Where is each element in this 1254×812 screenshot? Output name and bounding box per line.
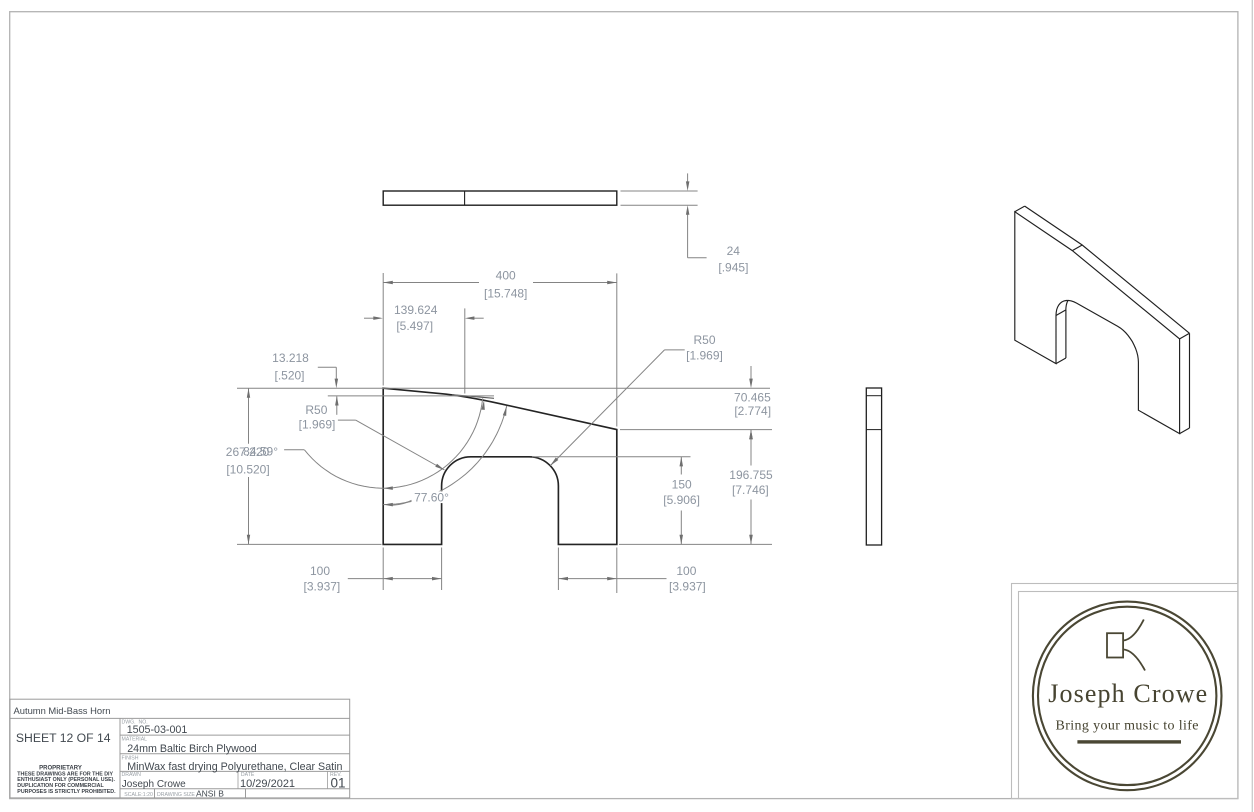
isometric view of horn panel	[1015, 206, 1190, 434]
iso back top edges	[1025, 206, 1190, 333]
svg-text:SHEET 12 OF 14: SHEET 12 OF 14	[16, 731, 111, 745]
iso arch back fillet (visible part)	[1066, 301, 1068, 310]
leader 84.59 text landing	[284, 449, 304, 451]
extension lines	[237, 191, 772, 593]
iso bottom-right corner edge	[1180, 428, 1190, 434]
svg-text:ANSI B: ANSI B	[196, 788, 224, 798]
svg-text:[5.497]: [5.497]	[396, 319, 433, 333]
svg-text:13.218: 13.218	[272, 351, 309, 365]
logo horn flare curves	[1123, 620, 1144, 641]
svg-text:100: 100	[310, 564, 330, 578]
svg-text:[7.746]: [7.746]	[732, 483, 769, 497]
svg-text:[10.520]: [10.520]	[226, 462, 269, 476]
svg-text:[5.906]: [5.906]	[663, 493, 700, 507]
side view (right profile)	[866, 388, 881, 545]
svg-text:Autumn Mid-Bass Horn: Autumn Mid-Bass Horn	[14, 705, 111, 716]
iso top-right corner edge	[1180, 333, 1190, 339]
svg-text:MATERIAL: MATERIAL	[122, 736, 148, 742]
iso back right edge	[1189, 333, 1191, 428]
svg-text:R50: R50	[305, 403, 327, 417]
window right edge line	[1251, 0, 1253, 812]
svg-text:PURPOSES IS STRICTLY PROHIBITE: PURPOSES IS STRICTLY PROHIBITED.	[17, 789, 116, 795]
svg-text:24: 24	[727, 244, 741, 258]
svg-text:150: 150	[672, 477, 692, 491]
title block borders	[10, 699, 350, 798]
svg-text:70.465: 70.465	[734, 391, 771, 405]
iso bevel junction tick	[1072, 245, 1082, 251]
svg-text:[3.937]: [3.937]	[304, 579, 341, 593]
iso front face outline	[1015, 212, 1180, 434]
logo frame boxes	[1012, 584, 1239, 799]
svg-text:MinWax fast drying Polyurethan: MinWax fast drying Polyurethane, Clear S…	[127, 761, 342, 773]
logo underline bar	[1077, 740, 1181, 743]
svg-text:[2.774]: [2.774]	[734, 404, 771, 418]
front view: horn panel profile with arch cutout	[383, 388, 617, 544]
svg-text:Joseph Crowe: Joseph Crowe	[1048, 679, 1207, 708]
svg-text:77.60°: 77.60°	[414, 490, 449, 504]
svg-text:R50: R50	[693, 333, 715, 347]
svg-text:[1.969]: [1.969]	[299, 417, 336, 431]
svg-text:Joseph Crowe: Joseph Crowe	[122, 779, 186, 790]
logo horn driver rectangle	[1107, 633, 1123, 657]
svg-text:01: 01	[331, 776, 346, 791]
svg-text:84.59°: 84.59°	[243, 445, 278, 459]
svg-text:24mm Baltic Birch Plywood: 24mm Baltic Birch Plywood	[127, 743, 257, 755]
svg-text:100: 100	[676, 564, 696, 578]
svg-text:[1.969]: [1.969]	[686, 349, 723, 363]
leader 77.60 text	[392, 500, 413, 506]
iso arch wall tangent edge	[1056, 310, 1066, 316]
radius leader R50 right	[249, 173, 752, 578]
svg-text:139.624: 139.624	[394, 303, 438, 317]
svg-text:400: 400	[496, 269, 516, 283]
top view (plan) of horn panel	[383, 191, 617, 205]
iso top-left corner edge	[1015, 206, 1025, 212]
svg-text:SCALE:1:20: SCALE:1:20	[124, 792, 153, 798]
svg-text:10/29/2021: 10/29/2021	[240, 778, 295, 790]
svg-text:[.945]: [.945]	[718, 260, 748, 274]
svg-text:[15.748]: [15.748]	[484, 287, 527, 301]
angle dimension arc 77.60	[383, 406, 507, 505]
arrowheads	[383, 281, 393, 284]
svg-text:1505-03-001: 1505-03-001	[127, 724, 188, 736]
logo double circle	[1033, 602, 1222, 791]
svg-text:196.755: 196.755	[729, 468, 773, 482]
iso arch wall bottom edge	[1056, 358, 1066, 364]
angle dimension arc 84.59	[304, 398, 482, 488]
svg-text:DRAWING SIZE: DRAWING SIZE	[157, 792, 195, 798]
svg-text:[3.937]: [3.937]	[669, 579, 706, 593]
svg-text:[.520]: [.520]	[274, 368, 304, 382]
iso arch back-left edge	[1065, 310, 1067, 358]
bevel-1 edge extension line	[452, 395, 494, 399]
svg-text:Bring your music to life: Bring your music to life	[1056, 719, 1199, 734]
